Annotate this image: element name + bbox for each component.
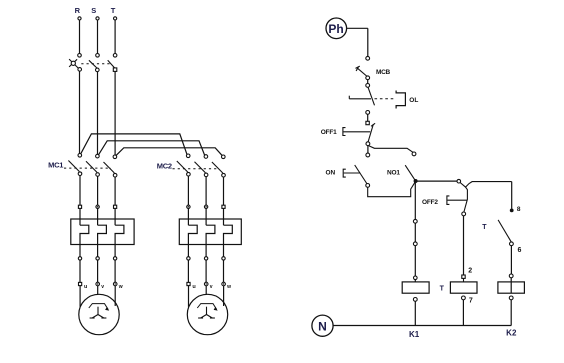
svg-text:8: 8 — [517, 206, 521, 213]
svg-text:R: R — [75, 6, 81, 15]
svg-text:K2: K2 — [506, 329, 517, 338]
svg-text:S: S — [91, 6, 96, 15]
svg-text:u: u — [192, 284, 195, 290]
svg-text:Ph: Ph — [328, 22, 343, 36]
svg-text:v: v — [101, 284, 104, 290]
svg-text:K1: K1 — [409, 330, 420, 339]
svg-text:v: v — [210, 284, 213, 290]
svg-text:MC1: MC1 — [48, 161, 63, 170]
svg-text:2: 2 — [468, 268, 472, 275]
svg-text:OL: OL — [409, 97, 418, 104]
svg-text:w: w — [226, 284, 231, 290]
svg-text:OFF1: OFF1 — [321, 129, 337, 136]
svg-text:T: T — [111, 6, 116, 15]
svg-text:w: w — [118, 284, 123, 290]
svg-text:NO1: NO1 — [387, 170, 400, 177]
svg-text:MCB: MCB — [376, 69, 391, 76]
svg-text:u: u — [84, 284, 87, 290]
svg-text:N: N — [318, 319, 327, 333]
svg-text:OFF2: OFF2 — [422, 199, 438, 206]
svg-text:MC2: MC2 — [157, 162, 172, 171]
svg-text:ON: ON — [326, 170, 336, 177]
svg-text:T: T — [482, 224, 487, 231]
svg-text:7: 7 — [469, 298, 473, 305]
svg-text:6: 6 — [518, 247, 522, 254]
svg-text:T: T — [440, 286, 445, 293]
